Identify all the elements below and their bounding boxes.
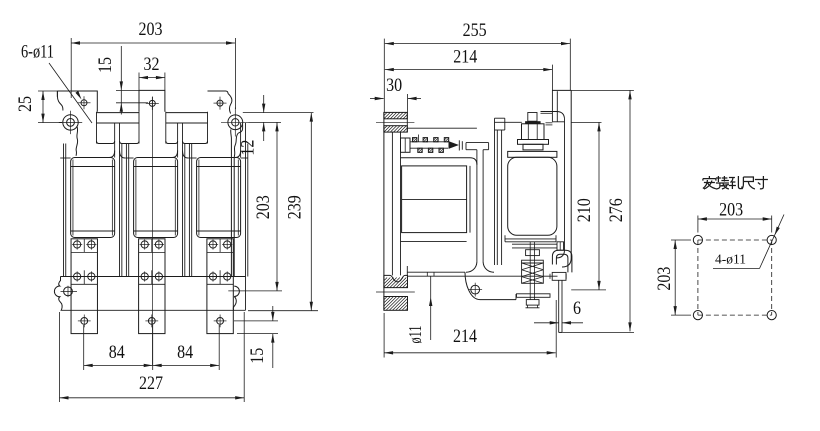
- leader 6-Ø11 line: [49, 63, 92, 123]
- interrupter top stud stub: [528, 113, 537, 122]
- upper terminal block 3 hole: [217, 100, 223, 106]
- central column T pillar: [466, 142, 489, 144]
- ref line plate bottom right: [237, 333, 278, 335]
- upper terminal block 2: [139, 90, 165, 111]
- contact pressure spring: [522, 263, 544, 283]
- svg-text:214: 214: [453, 46, 477, 67]
- mounting wall bottom foot with hatch: [384, 275, 408, 287]
- pole 2 terminal pad lines: [139, 251, 165, 253]
- interrupter top washer: [518, 140, 549, 145]
- pole 2 terminal screws row 2: [141, 273, 148, 280]
- spring top washer: [522, 260, 544, 263]
- interrupter top nut: [522, 124, 545, 140]
- upper terminal block 1 hole: [81, 100, 87, 106]
- dim 210 line: [598, 122, 600, 290]
- shelf line between blocks upper: [97, 112, 140, 114]
- mount hole bottom-right: [767, 311, 776, 320]
- side view dim 255 line: [385, 43, 570, 45]
- upper terminal plate lines: [546, 122, 553, 124]
- interrupter top washer bold: [525, 121, 541, 124]
- pedestal bottoms gap 2: [166, 141, 178, 144]
- title Chinese: mounting hole size: [703, 176, 716, 189]
- pole 2 bottom hole: [148, 318, 155, 325]
- washer plate under spring: [517, 294, 551, 298]
- svg-text:84: 84: [109, 342, 125, 363]
- bottom right ear wavy tail: [233, 297, 236, 311]
- clamp bolt nut: [557, 242, 564, 250]
- pole 1 terminal screws row 1: [74, 241, 81, 248]
- vacuum interrupter cylinder side view: [508, 157, 557, 235]
- svg-text:214: 214: [453, 326, 477, 347]
- svg-text:6: 6: [573, 298, 581, 319]
- under-cylinder washer: [505, 238, 556, 240]
- strap clamp block: [552, 272, 566, 280]
- dim 32 line: [139, 77, 165, 79]
- dim 15 line: [120, 46, 122, 115]
- upper terminal block 3: [208, 91, 229, 94]
- dim 25 line: [42, 91, 44, 123]
- ref line hole center right: [234, 320, 278, 322]
- ref line bottom ear center: [228, 290, 282, 292]
- mounting wall top foot with hatch: [384, 112, 407, 118]
- right side ref line ear center: [249, 121, 282, 123]
- pole 1 channel flares: [109, 151, 115, 158]
- flexible strap hook: [552, 250, 572, 272]
- pole 2 channel verticals: [177, 123, 179, 158]
- svg-text:4-ø11: 4-ø11: [715, 253, 746, 268]
- svg-text:203: 203: [654, 267, 675, 291]
- horizontal clamp bolt: [512, 243, 557, 245]
- pole 2 lower terminal plate: [139, 239, 165, 334]
- mount hole top-right: [767, 235, 776, 244]
- svg-text:30: 30: [386, 75, 402, 96]
- ref line base bottom right: [248, 310, 318, 312]
- right ear hole: [232, 119, 239, 126]
- dim 214 bottom line: [384, 352, 556, 354]
- pole 3 bottom hole: [217, 318, 224, 325]
- stud bottom nut: [526, 300, 539, 306]
- dim oh11 leader: [430, 276, 432, 340]
- mounting wall vertical lines: [383, 112, 385, 310]
- bottom foot plate rounded: [465, 272, 516, 299]
- svg-text:203: 203: [253, 195, 274, 219]
- base band of front view: [61, 276, 246, 278]
- pole 3 channel verticals: [240, 123, 242, 158]
- block edges extended down: [96, 112, 98, 144]
- base plate of side view: [407, 271, 465, 273]
- spacer block under washer: [526, 250, 540, 256]
- mount diagram dim 203 left line: [674, 240, 676, 315]
- pole 1 interrupter cylinder: [71, 158, 115, 238]
- pole 3 outer frame lines: [188, 144, 190, 277]
- pole 2 interrupter cylinder: [134, 158, 178, 238]
- side view lower mounting hole: [471, 285, 480, 294]
- front view: top dimension 203 line: [71, 42, 235, 44]
- mount hole bottom-left: [693, 311, 702, 320]
- coil block: [402, 166, 467, 233]
- svg-text:276: 276: [606, 198, 627, 222]
- pole 2 channel flares: [172, 151, 178, 158]
- pole 1 terminal screws row 2: [74, 273, 81, 280]
- pole 1 outer frame lines: [62, 144, 64, 277]
- svg-text:239: 239: [284, 195, 305, 219]
- bottom right ear boss: [234, 286, 239, 296]
- bracket shelf lines: [541, 112, 565, 120]
- left mounting ear with boss: [57, 91, 63, 111]
- pole 3 terminal screws row 1: [209, 241, 216, 248]
- cap connector lines between poles: [60, 157, 70, 159]
- side view dim 214 line: [385, 69, 553, 71]
- pedestal bottoms gap 1: [97, 141, 115, 144]
- bracket inner plate line: [556, 91, 558, 122]
- svg-text:6-ø11: 6-ø11: [21, 41, 54, 62]
- pole 2 terminal screws row 1: [141, 241, 148, 248]
- pole 3 terminal pad lines: [207, 251, 233, 253]
- svg-text:32: 32: [144, 54, 160, 75]
- svg-text:15: 15: [95, 57, 116, 73]
- label 4-oh11 leader: [713, 268, 760, 270]
- dim 6 line: [534, 322, 559, 324]
- pole 1 lower terminal plate: [71, 239, 97, 334]
- coil frame top with rounded corner: [401, 158, 477, 165]
- svg-text:227: 227: [139, 373, 163, 394]
- upper terminal block 1: [57, 91, 97, 112]
- shelf line between blocks lower: [97, 122, 140, 124]
- mount diagram dashed square: [698, 239, 772, 241]
- bottom foot hole centerline: [376, 291, 415, 293]
- side view dim 30 line: [370, 98, 384, 100]
- svg-text:203: 203: [719, 199, 743, 220]
- upper terminal block 2 hole: [149, 100, 155, 106]
- mount diagram dim 203 top line: [698, 218, 772, 220]
- bottom terminal bar side view: [558, 280, 560, 332]
- right ear tail inner line: [230, 130, 233, 277]
- coil right flange: [469, 166, 471, 233]
- svg-text:ø11: ø11: [405, 326, 425, 344]
- adjusting bolt with spring: [401, 138, 411, 152]
- frame top edge: [407, 127, 477, 129]
- svg-text:12: 12: [237, 140, 258, 156]
- base right edge: [245, 277, 247, 311]
- pole 1 terminal pad lines: [71, 251, 97, 253]
- svg-text:210: 210: [574, 198, 595, 222]
- svg-text:15: 15: [247, 348, 268, 364]
- svg-text:255: 255: [463, 20, 487, 41]
- stud through spring: [529, 242, 531, 300]
- pole 1 bottom hole: [81, 318, 88, 325]
- pole 2 outer frame lines: [125, 144, 127, 277]
- bottom left ear hole: [64, 287, 73, 296]
- pole 3 interrupter cylinder: [197, 158, 241, 238]
- pole 3 lower terminal plate: [207, 239, 233, 334]
- pole 3 terminal screws row 2: [209, 273, 216, 280]
- bolt pin tick: [418, 135, 420, 142]
- bottom left ear: [54, 277, 62, 311]
- magnet frame wall: [494, 118, 496, 265]
- pole 1 channel verticals: [114, 123, 116, 158]
- pole 3 channel flares: [235, 151, 241, 158]
- svg-text:25: 25: [15, 96, 36, 112]
- left ear hole: [67, 119, 75, 127]
- base plate hole edges: [426, 272, 428, 276]
- svg-text:203: 203: [139, 19, 163, 40]
- right mounting ear with boss: [228, 94, 232, 114]
- top foot hole centerline: [376, 121, 414, 123]
- right ear edge to tail: [238, 125, 242, 134]
- mount hole top-left: [693, 235, 702, 244]
- rear bracket: [552, 89, 571, 91]
- coil bottom shelf: [401, 240, 467, 242]
- dim 276 line: [629, 90, 631, 331]
- left ear lower contour: [76, 126, 78, 156]
- front view vertical centerline pole 2: [152, 97, 154, 366]
- right side ref line ear top: [243, 112, 314, 114]
- right ear lower tail wavy: [234, 133, 238, 276]
- svg-text:84: 84: [177, 342, 193, 363]
